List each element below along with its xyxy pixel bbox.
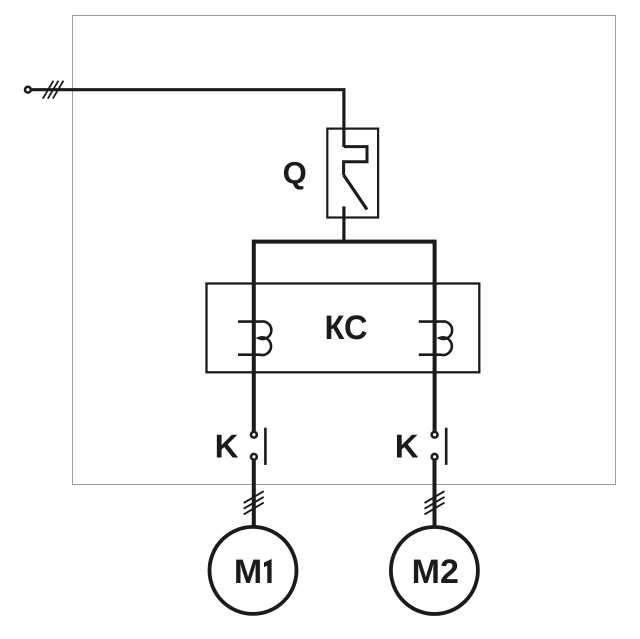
left branch wire bbox=[252, 240, 256, 431]
three-phase slashes right motor wire bbox=[425, 491, 445, 514]
breaker Q contact blade bbox=[344, 175, 367, 210]
motor M2 circle bbox=[391, 527, 478, 614]
svg-text:K: K bbox=[395, 427, 419, 464]
contact K2 lower terminal bbox=[432, 454, 438, 460]
wire from K2 to motor M2 bbox=[433, 461, 437, 528]
svg-text:K: K bbox=[215, 427, 239, 464]
border frame bbox=[73, 16, 616, 485]
contactor box KC bbox=[207, 284, 480, 373]
bus wire below breaker bbox=[254, 240, 435, 244]
terminal (supply input) bbox=[25, 87, 31, 93]
right branch wire bbox=[433, 240, 437, 431]
thermal element right bbox=[419, 321, 452, 355]
contact K1 upper terminal bbox=[251, 432, 257, 438]
contact K1 lower terminal bbox=[251, 454, 257, 460]
svg-text:М2: М2 bbox=[412, 553, 459, 591]
circuit breaker Q box bbox=[327, 129, 378, 218]
wire feed from terminal to breaker Q bbox=[32, 90, 344, 147]
motor M1 circle bbox=[210, 527, 297, 614]
svg-text:М: М bbox=[234, 553, 262, 591]
contact K2 upper terminal bbox=[432, 432, 438, 438]
breaker Q release hook bbox=[344, 147, 367, 175]
wire from K1 to motor M1 bbox=[252, 461, 256, 528]
svg-text:КС: КС bbox=[325, 309, 368, 347]
contact K2 bar bbox=[445, 428, 448, 465]
breaker Q bottom stub wire bbox=[342, 206, 345, 243]
three-phase slashes left motor wire bbox=[244, 491, 264, 514]
svg-text:Q: Q bbox=[283, 156, 307, 191]
thermal element left bbox=[238, 321, 271, 355]
three-phase slashes on feed wire bbox=[43, 81, 64, 99]
contact K1 bar bbox=[264, 428, 267, 465]
